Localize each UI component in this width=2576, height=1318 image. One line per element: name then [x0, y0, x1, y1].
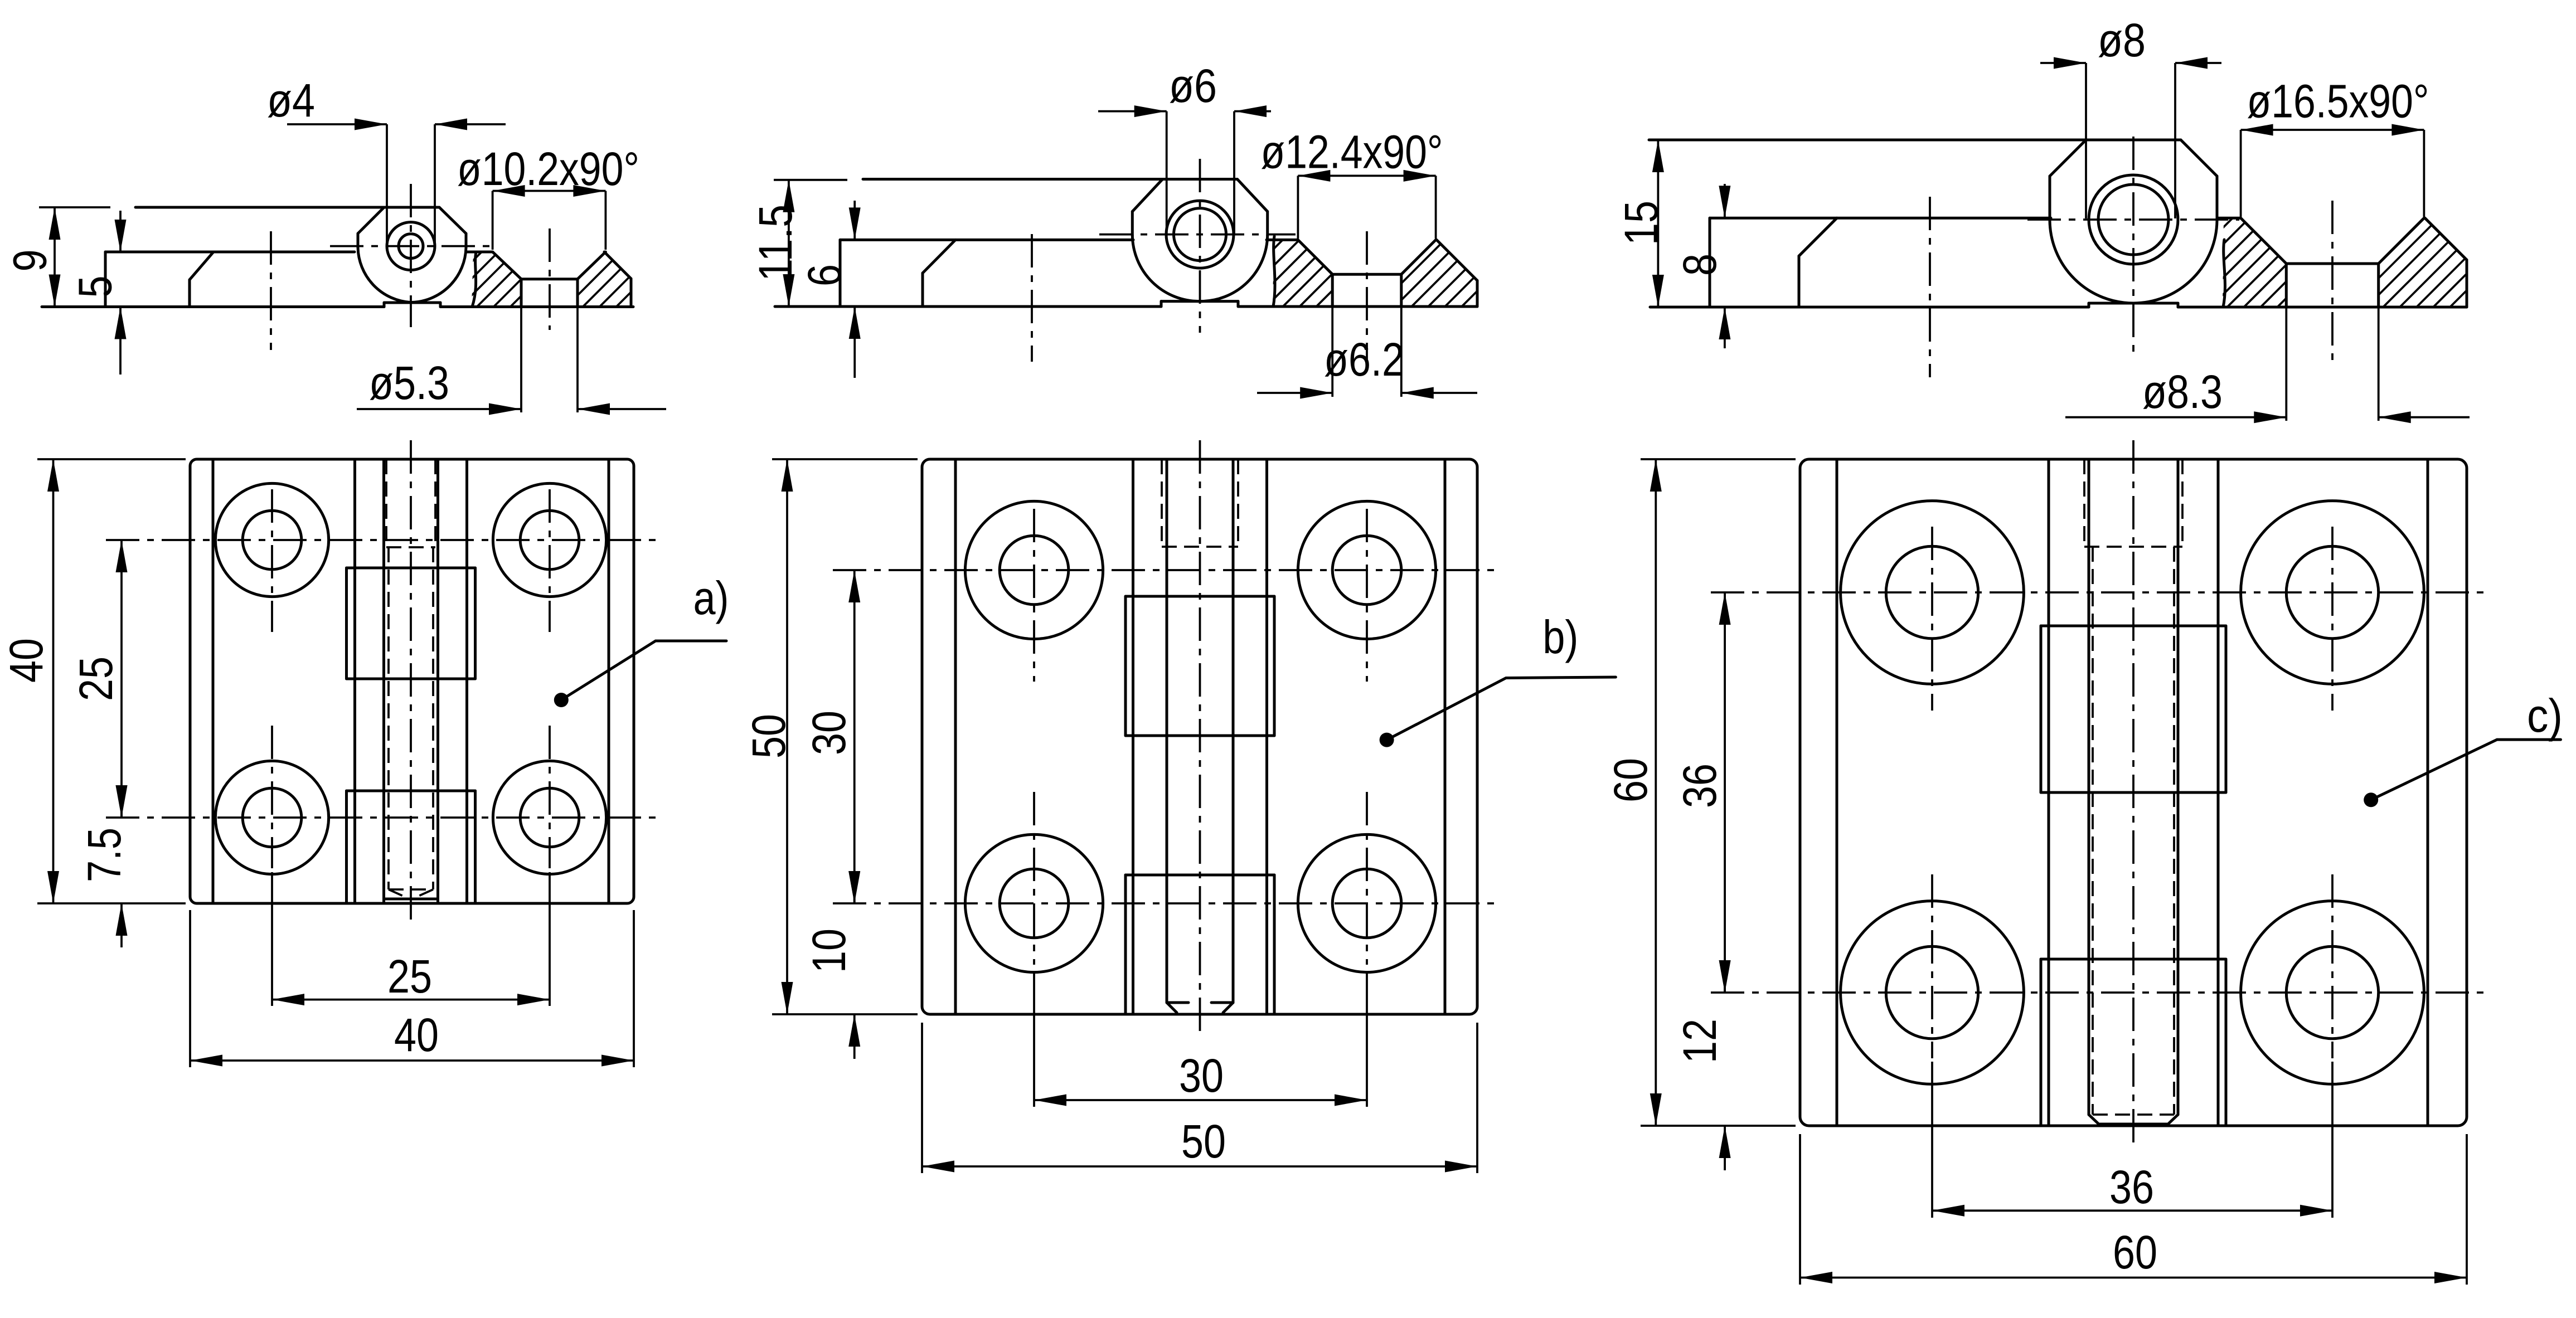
- svg-text:ø4: ø4: [267, 74, 315, 127]
- svg-text:50: 50: [1181, 1115, 1226, 1168]
- dimension ø16.5x90° extension lines: [2240, 130, 2242, 217]
- dimension ø5.3 extension lines: [520, 308, 522, 412]
- leader b): [1380, 733, 1394, 747]
- plan center axis: [2132, 440, 2134, 1145]
- dimension ø6.2 extension lines: [1331, 308, 1333, 397]
- dimension 25 vertical: [120, 540, 123, 818]
- knuckle S4 rectangle sides: [2040, 959, 2043, 1126]
- side view left hole centerline: [270, 231, 272, 350]
- knuckle S2 rectangle sides: [345, 568, 348, 679]
- hinge c) side view: right end chamfer: [2425, 218, 2467, 260]
- hinge a) side view: pocket chamfer: [190, 252, 214, 280]
- svg-text:ø16.5x90°: ø16.5x90°: [2247, 75, 2429, 127]
- hole row centerlines: [106, 539, 656, 541]
- hinge a) plan view: right step line: [608, 459, 610, 903]
- joint strip pin verticals: [382, 459, 385, 899]
- svg-text:30: 30: [803, 711, 855, 755]
- dimension ø12.4x90°: [1298, 174, 1435, 177]
- hidden thread box top: [385, 459, 387, 547]
- hinge a) plan view: left step line: [212, 459, 215, 903]
- dimension ø12.4x90° extension lines: [1297, 176, 1299, 239]
- dimension 5: [119, 211, 122, 252]
- svg-text:12: 12: [1673, 1019, 1726, 1063]
- dimension ø6 extension lines: [1166, 111, 1168, 234]
- dimension 15: [1657, 140, 1659, 307]
- hinge b) plan view: counterbored holes: [965, 501, 1103, 639]
- pin end at bottom: [2093, 1113, 2174, 1116]
- dimension ø16.5x90°: [2241, 129, 2424, 131]
- side view pin horizontal centerline: [330, 245, 490, 247]
- side view countersunk hole centerline: [2331, 201, 2334, 368]
- hinge a) side view: left end edge: [104, 252, 107, 307]
- dimension 9: [54, 207, 56, 307]
- hinge c) side view: bottom notch under barrel: [2089, 302, 2178, 305]
- side view pin vertical centerline: [1199, 159, 1201, 333]
- hinge c) side view: pin bore circles: [2089, 175, 2178, 264]
- hinge a) plan view: outer square: [190, 459, 634, 903]
- dimension 12: [1724, 967, 1726, 993]
- side view countersunk hole centerline: [549, 228, 551, 330]
- svg-text:7.5: 7.5: [78, 828, 130, 882]
- dimension ø10.2x90° extension lines: [492, 191, 494, 250]
- hinge c) side view: bottom line: [1650, 306, 2089, 309]
- hinge b) plan view: left step line: [954, 459, 957, 1014]
- hinge a) side view: leaf top surface: [105, 251, 355, 254]
- side view countersunk hole centerline: [1366, 231, 1368, 362]
- leader c): [2364, 792, 2378, 807]
- dimension 60 horizontal with extensions: [1799, 1134, 1801, 1285]
- hinge b) side view: bottom line: [775, 305, 1161, 308]
- svg-text:6: 6: [798, 264, 851, 286]
- svg-text:b): b): [1542, 611, 1578, 663]
- dimension ø4: [287, 123, 387, 125]
- svg-text:60: 60: [1604, 758, 1657, 803]
- svg-text:40: 40: [394, 1009, 439, 1061]
- hole column centerlines: [1931, 527, 1933, 711]
- svg-text:25: 25: [387, 950, 432, 1003]
- hinge a) side view: knuckle barrel arc: [358, 247, 466, 303]
- svg-text:36: 36: [2109, 1161, 2154, 1213]
- hinge b) side view: countersink cone section: [1298, 240, 1332, 274]
- svg-text:60: 60: [2113, 1226, 2157, 1278]
- dimension 36 vertical: [1724, 592, 1726, 993]
- svg-text:c): c): [2527, 689, 2563, 742]
- svg-text:ø6.2: ø6.2: [1324, 333, 1404, 386]
- side view left hole centerline: [1031, 234, 1033, 362]
- hinge a) side view: knuckle octagon chamfers: [358, 207, 384, 234]
- hinge c) side view: right leaf surface: [2217, 217, 2241, 220]
- dimension ø6: [1098, 110, 1167, 113]
- svg-text:ø8: ø8: [2098, 14, 2146, 66]
- svg-text:36: 36: [1673, 763, 1726, 808]
- knuckle step lines: [347, 567, 476, 570]
- hinge b) side view: top line: [774, 179, 847, 181]
- joint strip pin verticals: [1166, 459, 1168, 1003]
- dimension 50 horizontal with extensions: [921, 1023, 923, 1173]
- dimension ø8 extension lines: [2085, 63, 2087, 218]
- dimension 6: [853, 201, 856, 240]
- knuckle S2 rectangle sides: [2040, 626, 2043, 792]
- hinge b) side view: knuckle octagon chamfers: [1132, 179, 1162, 212]
- hinge b) side view: pocket chamfer: [923, 240, 955, 273]
- svg-text:25: 25: [70, 656, 122, 701]
- joint strip outer verticals: [353, 459, 356, 903]
- svg-text:5: 5: [69, 276, 122, 298]
- dimension 36 horizontal with extensions: [1931, 1062, 1933, 1218]
- knuckle step lines: [1126, 595, 1274, 598]
- svg-text:10: 10: [803, 928, 855, 973]
- hinge a) plan view: counterbored holes: [215, 483, 328, 596]
- side view pin horizontal centerline: [1099, 234, 1296, 236]
- joint strip outer verticals: [1132, 459, 1134, 1014]
- hinge a) side view: countersink cone section: [493, 252, 521, 279]
- hinge c) side view: section break line: [2223, 240, 2225, 307]
- hinge c) side view: knuckle barrel arc: [2050, 221, 2217, 303]
- hinge c) plan view: left step line: [1836, 459, 1838, 1126]
- dimension ø8.3 extension lines: [2285, 308, 2287, 421]
- dimension 60 vertical with extension lines: [1641, 458, 1796, 460]
- hinge b) side view: knuckle barrel arc: [1132, 235, 1267, 301]
- svg-text:50: 50: [743, 714, 795, 758]
- dimension ø5.3: [357, 408, 521, 410]
- hinge c) plan view: right step line: [2427, 459, 2429, 1126]
- dimension 30 vertical: [853, 570, 856, 903]
- hinge a) side view: bottom notch under barrel: [384, 301, 440, 304]
- plan center axis: [1199, 440, 1201, 1034]
- svg-text:ø8.3: ø8.3: [2142, 366, 2223, 418]
- dimension 50 vertical with extension lines: [772, 458, 918, 460]
- dimension 25 horizontal with extensions: [271, 872, 273, 1006]
- hinge c) side view: leaf top surface: [1710, 217, 2051, 220]
- svg-text:ø6: ø6: [1169, 60, 1217, 112]
- knuckle S4 rectangle sides: [345, 791, 348, 903]
- svg-text:15: 15: [1615, 201, 1667, 245]
- hinge c) side view: left end edge: [1709, 218, 1711, 307]
- hole column centerlines: [1033, 509, 1035, 682]
- joint strip outer verticals: [2048, 459, 2050, 1126]
- svg-text:ø12.4x90°: ø12.4x90°: [1261, 126, 1443, 178]
- dimension ø6.2: [1257, 392, 1332, 394]
- svg-text:8: 8: [1673, 254, 1726, 276]
- svg-text:ø10.2x90°: ø10.2x90°: [457, 143, 639, 195]
- hinge a) side view: pin bore circles: [387, 222, 435, 270]
- hinge c) side view: pocket chamfer: [1799, 218, 1837, 256]
- svg-text:11.5: 11.5: [749, 205, 802, 281]
- hinge a) side view: top line of knuckle silhouette: [39, 206, 110, 208]
- hinge c) side view: knuckle octagon chamfers: [2050, 140, 2086, 176]
- hinge c) side view: top line: [1649, 139, 2181, 142]
- dimension ø8: [2040, 62, 2086, 64]
- hinge a) side view: right end chamfer: [604, 252, 631, 279]
- hinge a) side view: section break line: [472, 252, 476, 307]
- hinge a) side view: bottom line: [42, 305, 384, 308]
- dimension 40 horizontal with extensions: [189, 910, 191, 1067]
- dimension 30 horizontal with extensions: [1033, 972, 1035, 1107]
- hinge b) side view: leaf top surface: [840, 239, 1133, 241]
- hinge b) side view: section break line: [1273, 236, 1275, 307]
- svg-text:40: 40: [0, 638, 52, 683]
- hole row centerlines: [1711, 591, 2486, 594]
- hidden thread box top: [2083, 459, 2085, 547]
- knuckle S2 rectangle sides: [1124, 596, 1127, 736]
- side view pin vertical centerline: [410, 184, 412, 327]
- pin end chamfer at bottom: [1167, 1001, 1188, 1004]
- hinge c) plan view: outer square: [1800, 459, 2467, 1126]
- hidden thread box top: [1161, 459, 1163, 547]
- side view pin horizontal centerline: [2027, 218, 2239, 221]
- hinge b) side view: pin bore circles: [1166, 201, 1234, 268]
- hidden thread lines: [2092, 547, 2094, 1115]
- hinge b) side view: right end chamfer: [1437, 240, 1477, 280]
- plan center axis: [410, 440, 412, 922]
- strip bottom notch: [384, 898, 438, 901]
- hidden thread end cone: [389, 888, 433, 891]
- hinge b) plan view: right step line: [1444, 459, 1447, 1014]
- leader a): [554, 693, 569, 707]
- hinge b) side view: bottom notch under barrel: [1161, 300, 1238, 303]
- hidden thread lines: [387, 547, 390, 889]
- hole row centerlines: [833, 569, 1496, 571]
- svg-text:9: 9: [4, 250, 56, 272]
- side view left hole centerline: [1929, 197, 1931, 377]
- svg-text:a): a): [693, 572, 729, 624]
- hinge b) plan view: outer square: [922, 459, 1477, 1014]
- knuckle step lines: [2041, 625, 2226, 628]
- hinge b) side view: left end edge: [839, 240, 842, 307]
- dimension 11.5: [788, 180, 790, 307]
- joint strip pin verticals: [2088, 459, 2090, 1115]
- dimension ø4 extension lines: [386, 124, 388, 246]
- dimension 10: [853, 878, 856, 903]
- hinge b) side view: right leaf surface: [1267, 239, 1298, 241]
- hinge c) plan view: counterbored holes: [1841, 501, 2024, 684]
- dimension ø8.3: [2065, 416, 2286, 419]
- knuckle S4 rectangle sides: [1124, 875, 1127, 1014]
- hinge a) side view: right leaf surface: [466, 251, 493, 254]
- hinge c) side view: countersink cone section: [2241, 218, 2287, 264]
- dimension 40 vertical with extension lines: [37, 458, 186, 460]
- hole column centerlines: [271, 489, 273, 632]
- dimension ø10.2x90°: [493, 190, 606, 192]
- svg-text:ø5.3: ø5.3: [369, 357, 449, 409]
- dimension 8: [1724, 184, 1726, 218]
- svg-text:30: 30: [1179, 1049, 1224, 1102]
- side view pin vertical centerline: [2132, 137, 2134, 357]
- dimension 7.5: [120, 791, 123, 818]
